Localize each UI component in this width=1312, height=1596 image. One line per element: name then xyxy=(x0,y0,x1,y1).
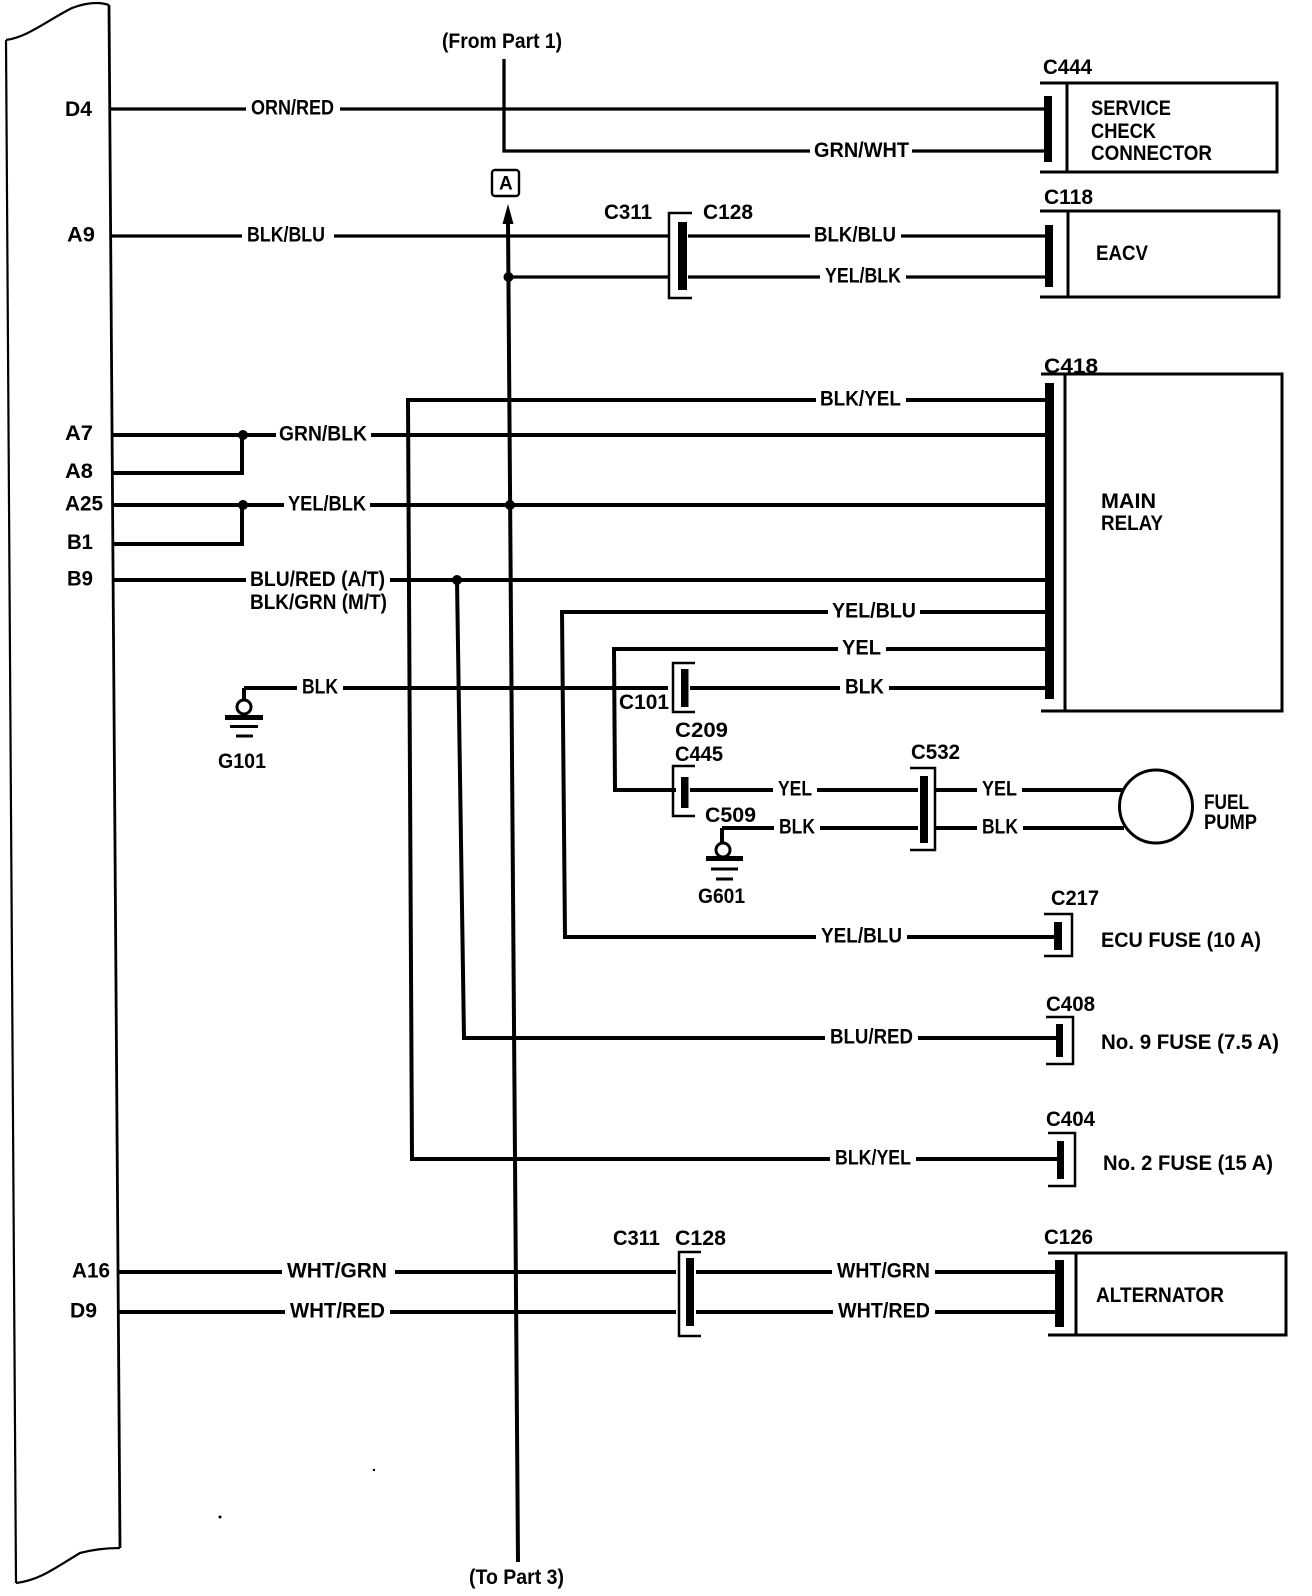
svg-text:RELAY: RELAY xyxy=(1101,512,1163,535)
svg-text:BLK/BLU: BLK/BLU xyxy=(814,224,896,247)
svg-text:ORN/RED: ORN/RED xyxy=(251,97,334,120)
wire WHT/GRN left xyxy=(118,1270,676,1274)
wire BLK/BLU left xyxy=(110,234,668,237)
wire BLK/YEL to main relay and down to C404 fuse xyxy=(408,400,1048,1159)
arrow up on node A line xyxy=(503,204,514,224)
junction on A line to EACV xyxy=(504,272,514,282)
svg-text:C445: C445 xyxy=(675,743,723,766)
wire BLK C532 to fuel pump xyxy=(936,826,1124,830)
svg-text:C118: C118 xyxy=(1044,186,1093,209)
svg-text:A: A xyxy=(499,174,513,195)
connector C532 xyxy=(910,768,935,850)
svg-text:ALTERNATOR: ALTERNATOR xyxy=(1096,1284,1224,1307)
wire ORN/RED xyxy=(110,107,1048,110)
svg-text:BLU/RED (A/T): BLU/RED (A/T) xyxy=(250,568,385,591)
connector C311/C128 lower xyxy=(679,1252,701,1336)
svg-text:YEL: YEL xyxy=(982,778,1017,801)
wire WHT/GRN right xyxy=(696,1270,1058,1274)
svg-text:D4: D4 xyxy=(65,98,92,121)
ECU connector strip (torn edge) xyxy=(6,3,120,1583)
wire YEL C532 to fuel pump xyxy=(936,788,1124,792)
wire GRN/WHT right segment xyxy=(912,149,1048,152)
wire main vertical A line xyxy=(508,220,518,1562)
svg-text:C128: C128 xyxy=(703,201,753,224)
svg-text:C311: C311 xyxy=(613,1227,660,1250)
svg-text:C126: C126 xyxy=(1044,1226,1093,1249)
box SERVICE CHECK CONNECTOR xyxy=(1040,83,1277,172)
svg-text:G601: G601 xyxy=(698,885,745,908)
wire YEL to main relay and down to C445 xyxy=(614,649,1048,790)
svg-text:BLK/YEL: BLK/YEL xyxy=(820,388,901,411)
svg-text:YEL/BLU: YEL/BLU xyxy=(832,600,916,623)
svg-text:MAIN: MAIN xyxy=(1101,490,1156,513)
connector C217 xyxy=(1044,914,1072,956)
connector C118 bar xyxy=(1045,225,1053,287)
wire BLU/RED from B9 xyxy=(113,578,1048,582)
ground G601 xyxy=(706,828,743,879)
wire YEL/BLU to main relay and down to C217 fuse xyxy=(562,612,1056,937)
svg-text:BLK/YEL: BLK/YEL xyxy=(835,1147,911,1170)
wire BLK/YEL to C404 xyxy=(916,1157,1059,1161)
box MAIN RELAY xyxy=(1041,374,1282,711)
svg-text:CHECK: CHECK xyxy=(1091,120,1156,143)
wire YEL/BLK from A line to C311 xyxy=(508,275,668,278)
box EACV xyxy=(1040,211,1279,297)
svg-text:YEL: YEL xyxy=(842,637,881,660)
svg-text:(To Part 3): (To Part 3) xyxy=(469,1566,564,1589)
wire WHT/RED right xyxy=(696,1310,1058,1314)
svg-text:A16: A16 xyxy=(72,1260,110,1283)
wire WHT/RED left xyxy=(118,1310,676,1314)
fuel pump circle xyxy=(1120,770,1193,843)
connector C311/C128 upper xyxy=(669,213,692,298)
wire GRN/BLK xyxy=(112,433,1048,437)
svg-text:C101: C101 xyxy=(619,691,669,714)
svg-text:GRN/WHT: GRN/WHT xyxy=(814,139,909,162)
svg-text:EACV: EACV xyxy=(1096,242,1148,265)
svg-text:B9: B9 xyxy=(67,568,93,591)
wire B1 stub xyxy=(113,505,242,544)
svg-text:YEL/BLK: YEL/BLK xyxy=(288,493,366,516)
svg-text:BLK/BLU: BLK/BLU xyxy=(247,224,325,247)
svg-text:D9: D9 xyxy=(70,1300,97,1323)
svg-text:B1: B1 xyxy=(67,531,93,554)
svg-text:BLK: BLK xyxy=(302,676,338,699)
svg-text:BLK/GRN (M/T): BLK/GRN (M/T) xyxy=(250,591,387,614)
speck xyxy=(219,1516,222,1519)
wire YEL C445 to C532 xyxy=(690,788,918,792)
svg-text:PUMP: PUMP xyxy=(1204,811,1257,834)
svg-text:CONNECTOR: CONNECTOR xyxy=(1091,142,1212,165)
svg-text:C408: C408 xyxy=(1046,993,1095,1016)
svg-text:G101: G101 xyxy=(218,750,266,773)
svg-text:WHT/RED: WHT/RED xyxy=(838,1300,930,1323)
svg-text:BLK: BLK xyxy=(982,816,1018,839)
svg-text:C128: C128 xyxy=(675,1227,726,1250)
svg-text:BLK: BLK xyxy=(779,816,815,839)
svg-text:No. 2 FUSE (15 A): No. 2 FUSE (15 A) xyxy=(1103,1152,1273,1175)
svg-text:C404: C404 xyxy=(1046,1108,1095,1131)
wire BLK from G101 to main relay xyxy=(244,686,1048,690)
wire BLU/RED down to C408 fuse xyxy=(457,580,1058,1038)
svg-text:C509: C509 xyxy=(705,804,756,827)
svg-text:(From Part 1): (From Part 1) xyxy=(442,30,562,53)
wire A8 stub xyxy=(112,435,242,473)
connector C418 bar (main relay) xyxy=(1045,383,1054,699)
junction YEL/BLK on A line xyxy=(505,500,515,510)
svg-text:WHT/GRN: WHT/GRN xyxy=(837,1260,930,1283)
wire BLK from G601 to C532 xyxy=(722,826,918,830)
wire YEL/BLK right xyxy=(688,275,1048,278)
label FUEL PUMP xyxy=(1204,791,1257,834)
connector C404 xyxy=(1048,1133,1075,1186)
svg-text:A7: A7 xyxy=(65,422,93,445)
svg-text:SERVICE: SERVICE xyxy=(1091,97,1171,120)
connector C408 xyxy=(1046,1017,1073,1064)
svg-text:BLU/RED: BLU/RED xyxy=(830,1026,913,1049)
svg-text:WHT/GRN: WHT/GRN xyxy=(287,1260,387,1283)
node A box xyxy=(492,170,519,196)
svg-text:A25: A25 xyxy=(65,493,103,516)
wire YEL/BLK left xyxy=(112,503,1048,507)
svg-text:A9: A9 xyxy=(67,224,95,247)
svg-text:YEL: YEL xyxy=(778,778,812,801)
svg-text:C311: C311 xyxy=(604,201,652,224)
svg-text:WHT/RED: WHT/RED xyxy=(290,1300,385,1323)
svg-text:C532: C532 xyxy=(911,741,960,764)
connector C101/C209 xyxy=(673,663,695,712)
svg-text:C444: C444 xyxy=(1043,56,1092,79)
junction A25/B1 xyxy=(238,500,248,510)
box ALTERNATOR xyxy=(1048,1253,1286,1335)
svg-text:BLK: BLK xyxy=(845,676,884,699)
junction A7/A8 xyxy=(238,430,248,440)
ground G101 xyxy=(225,688,263,736)
junction BLU/RED branch xyxy=(452,575,462,585)
wire BLK/BLU right xyxy=(688,234,1048,237)
svg-text:GRN/BLK: GRN/BLK xyxy=(279,423,367,446)
wire from part 1 vertical + GRN/WHT corner xyxy=(504,59,810,151)
svg-text:C217: C217 xyxy=(1051,887,1099,910)
svg-text:ECU FUSE (10 A): ECU FUSE (10 A) xyxy=(1101,929,1261,952)
speck xyxy=(373,1469,375,1471)
connector C126 bar xyxy=(1055,1260,1064,1327)
svg-text:YEL/BLU: YEL/BLU xyxy=(821,925,902,948)
connector C445 xyxy=(673,766,695,816)
connector C444 bar xyxy=(1044,96,1052,162)
svg-text:No. 9 FUSE (7.5 A): No. 9 FUSE (7.5 A) xyxy=(1101,1031,1279,1054)
svg-text:A8: A8 xyxy=(65,460,93,483)
svg-text:YEL/BLK: YEL/BLK xyxy=(825,265,901,288)
svg-text:C209: C209 xyxy=(675,719,728,742)
